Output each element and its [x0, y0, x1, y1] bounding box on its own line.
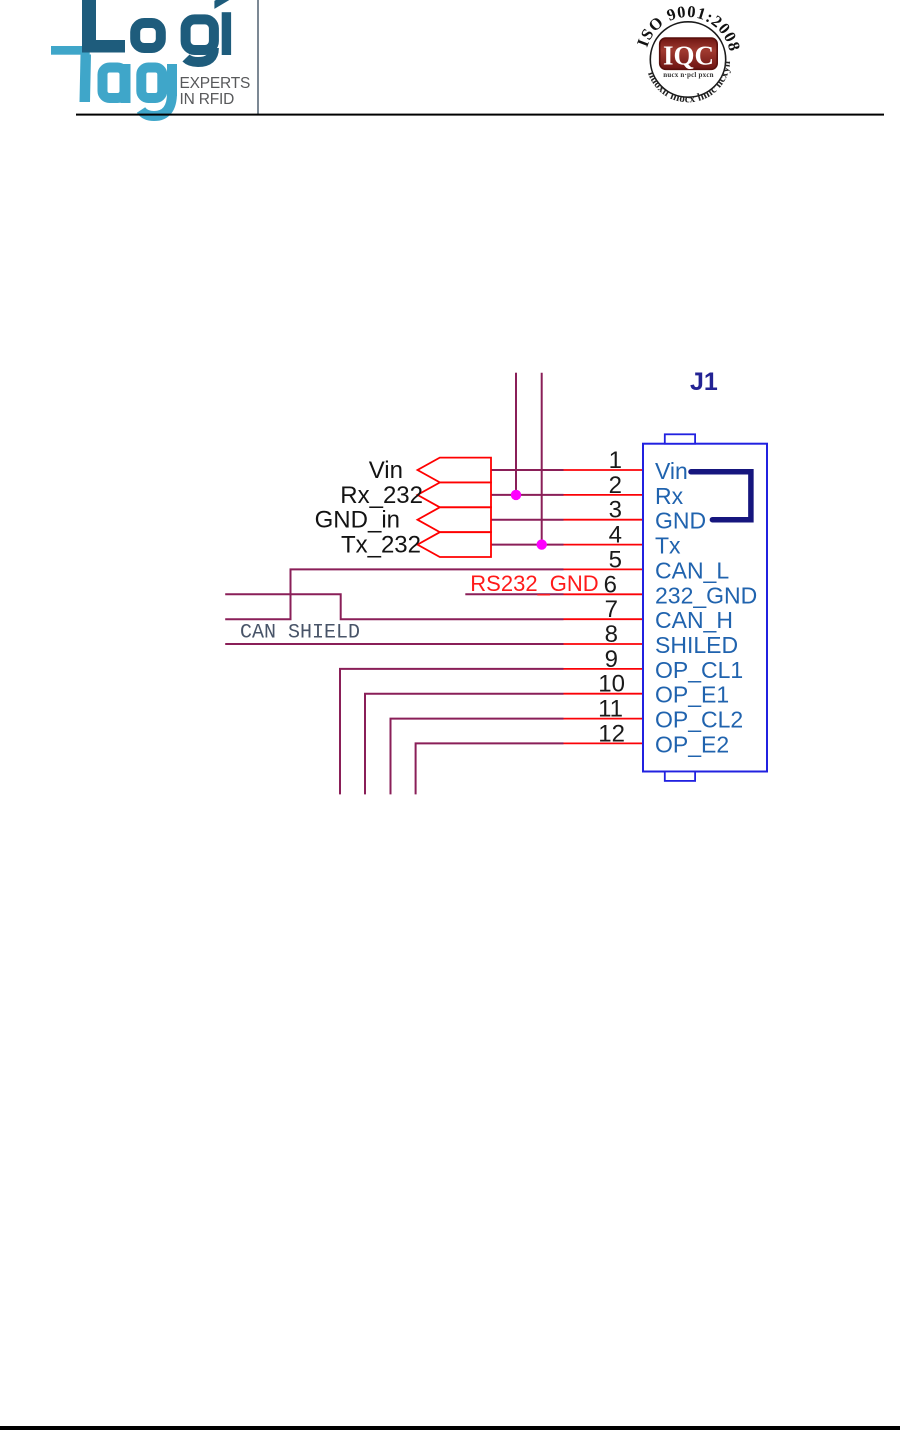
svg-text:CAN SHIELD: CAN SHIELD	[240, 622, 360, 645]
pin stub 9	[564, 668, 644, 670]
pin names	[655, 458, 757, 757]
wire net Rx_232 (pin2)	[491, 494, 564, 496]
pin stub 3	[564, 519, 644, 521]
svg-text:RS232_GND: RS232_GND	[470, 571, 598, 596]
input port Tx_232	[418, 532, 492, 557]
pin stub 2	[564, 494, 644, 496]
svg-text:3: 3	[609, 497, 622, 524]
pin stub 4	[564, 544, 644, 546]
Tag a	[103, 64, 126, 103]
footer bar	[0, 1426, 900, 1430]
svg-text:Rx_232: Rx_232	[340, 482, 423, 509]
junction dot on pin4 net	[537, 539, 547, 549]
svg-text:EXPERTS: EXPERTS	[180, 75, 251, 92]
svg-text:OP_E1: OP_E1	[655, 682, 729, 708]
svg-text:Vin: Vin	[655, 458, 688, 484]
Tag T-stem	[80, 55, 92, 103]
svg-text:Vin: Vin	[369, 457, 403, 484]
pin stub 6	[564, 593, 644, 595]
pin stub 12	[564, 742, 644, 744]
svg-text:5: 5	[609, 546, 622, 573]
wire vertical A (to pin2 net)	[515, 373, 517, 495]
ISO 9001:2008 IQC seal	[633, 2, 745, 106]
svg-text:OP_CL2: OP_CL2	[655, 707, 743, 733]
svg-text:7: 7	[605, 596, 618, 623]
Logi L	[82, 0, 125, 53]
Logi g	[186, 19, 214, 62]
svg-text:IQC: IQC	[663, 41, 714, 71]
connector J1 top tab	[665, 434, 695, 443]
no-connect bracket Vin to GND	[691, 472, 751, 520]
pin stub 7	[564, 618, 644, 620]
junction dot on pin2 net	[511, 490, 521, 500]
wire net GND_in (pin3)	[491, 519, 564, 521]
wire net Vin (pin1)	[491, 469, 564, 471]
svg-text:2: 2	[609, 472, 622, 499]
svg-text:IN RFID: IN RFID	[180, 91, 235, 108]
wire net Tx_232 (pin4)	[491, 544, 564, 546]
wire net CAN SHIELD (pin8)	[225, 643, 563, 645]
svg-text:10: 10	[598, 671, 625, 698]
Tag T-arm light blue bar	[51, 46, 90, 55]
connector J1 body	[643, 444, 767, 772]
svg-text:CAN_H: CAN_H	[655, 607, 733, 633]
header separator vertical line	[257, 0, 259, 115]
svg-text:CAN_L: CAN_L	[655, 557, 729, 583]
wire net RS232_GND (pin6)	[465, 593, 563, 595]
connector J1 bottom tab	[665, 772, 695, 781]
svg-text:GND_in: GND_in	[315, 507, 400, 534]
svg-text:11: 11	[598, 696, 623, 723]
svg-text:4: 4	[609, 522, 622, 549]
wire net OP_E1 (pin10)	[365, 694, 564, 795]
svg-text:nucx n·pcl pxcn: nucx n·pcl pxcn	[663, 71, 713, 79]
wire net CAN_H (pin7)	[225, 594, 563, 619]
logo LogiTag	[51, 0, 250, 116]
pin stub 11	[564, 718, 644, 720]
wire net OP_E2 (pin12)	[416, 743, 564, 794]
pin stub 1	[564, 469, 644, 471]
svg-text:Rx: Rx	[655, 483, 684, 509]
Logi o	[135, 23, 161, 48]
svg-text:OP_CL1: OP_CL1	[655, 657, 743, 683]
input port Vin	[418, 458, 492, 483]
wire vertical B (to pin4 net)	[541, 373, 543, 545]
seal inner circle	[650, 22, 725, 97]
svg-text:SHILED: SHILED	[655, 632, 738, 658]
wire net CAN_L (pin5)	[225, 569, 563, 619]
input port GND_in	[418, 507, 492, 532]
IQC red box	[660, 38, 718, 69]
svg-text:J1: J1	[690, 368, 718, 396]
connector J1 pin stubs (red)	[564, 470, 644, 743]
wire net OP_CL1 (pin9)	[340, 669, 564, 795]
svg-text:1: 1	[609, 447, 622, 474]
pin stub 8	[564, 643, 644, 645]
svg-text:OP_E2: OP_E2	[655, 731, 729, 757]
svg-text:8: 8	[605, 621, 618, 648]
Tag g	[141, 64, 172, 116]
svg-text:6: 6	[604, 571, 617, 598]
pin stub 5	[564, 568, 644, 570]
svg-text:12: 12	[598, 720, 625, 747]
wire net OP_CL2 (pin11)	[391, 719, 564, 795]
pin numbers	[598, 447, 625, 747]
input port Rx_232	[418, 483, 492, 508]
svg-text:232_GND: 232_GND	[655, 582, 757, 608]
svg-text:GND: GND	[655, 508, 706, 534]
svg-text:Tx_232: Tx_232	[341, 532, 421, 559]
svg-text:Tx: Tx	[655, 533, 681, 559]
Logi i	[222, 12, 231, 55]
header rule	[76, 114, 884, 116]
svg-text:9: 9	[605, 646, 618, 673]
pin stub 10	[564, 693, 644, 695]
